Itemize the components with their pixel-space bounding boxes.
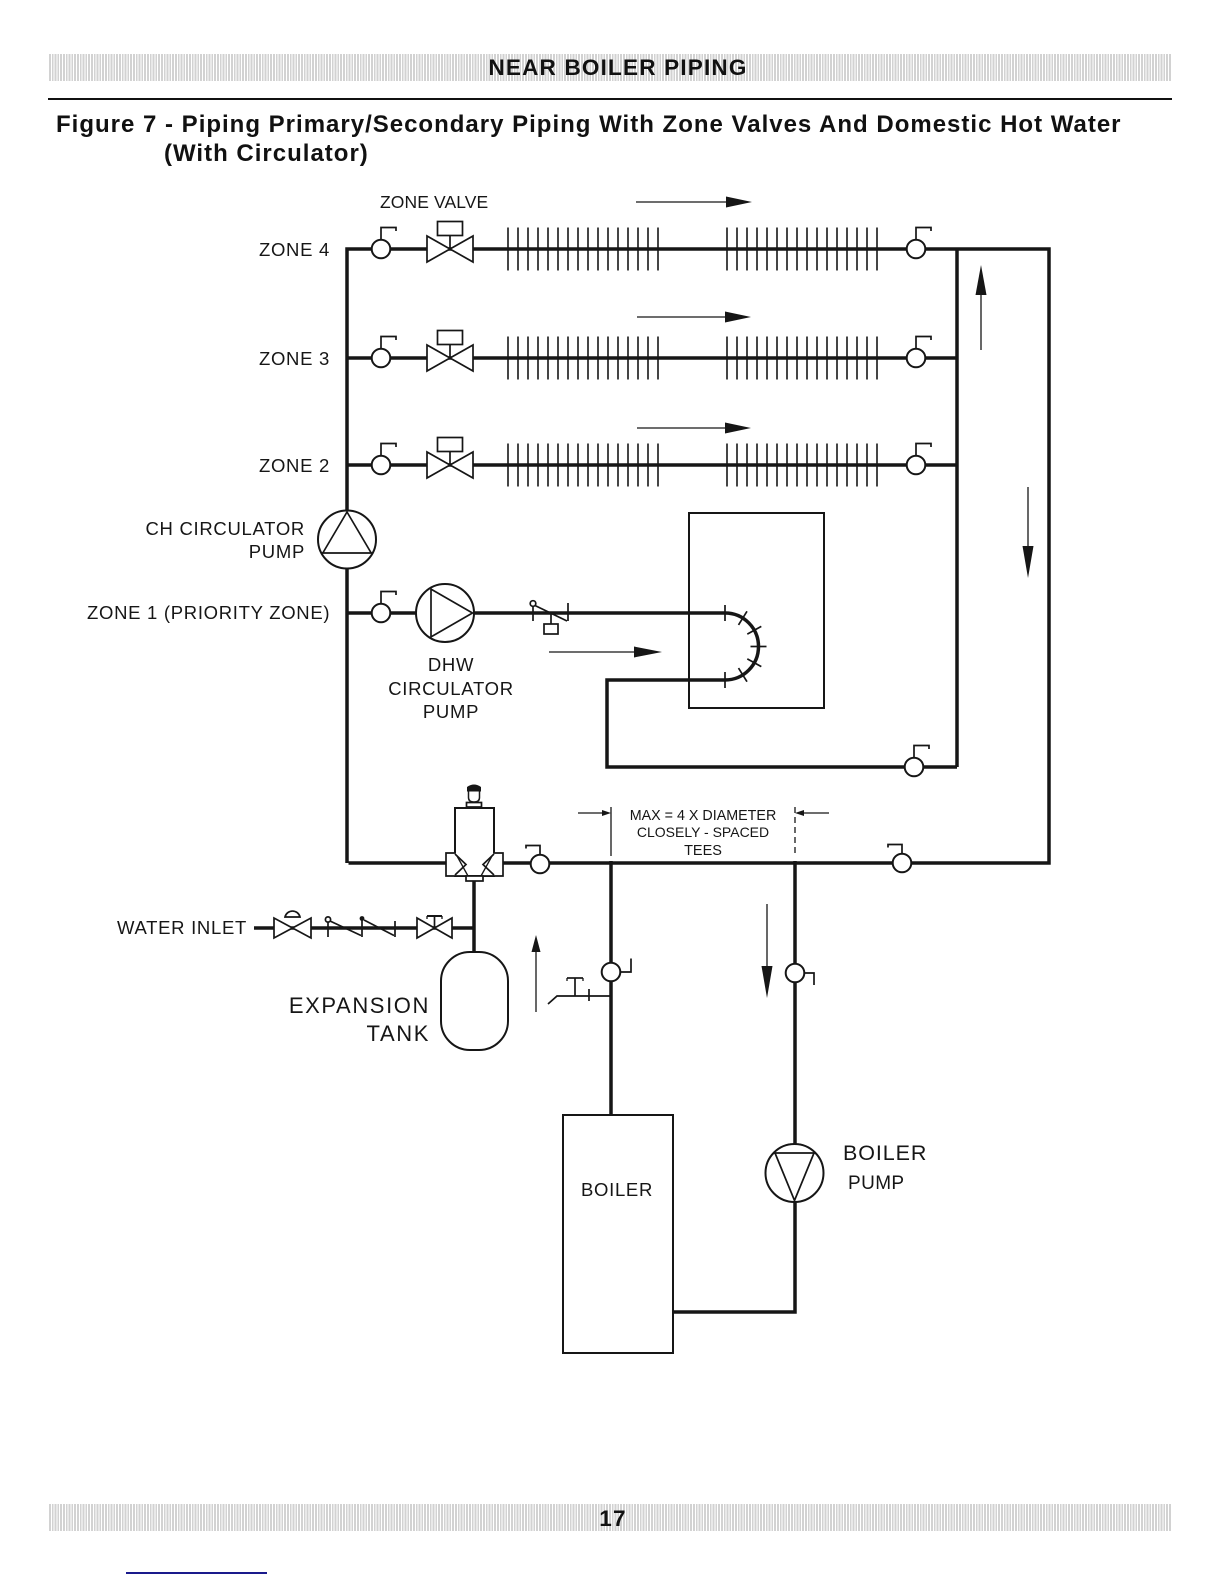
dimension arrow left (578, 810, 611, 816)
flow arrow down (boiler return) (762, 904, 773, 998)
svg-text:WATER INLET: WATER INLET (117, 917, 247, 938)
DHW circulator pump (416, 584, 474, 642)
flow arrow zone 1 / DHW (549, 647, 662, 658)
valve on boiler supply drop (602, 959, 631, 982)
flow arrow up (boiler supply) (532, 935, 541, 1012)
header title NEAR BOILER PIPING (56, 55, 1180, 81)
shutoff valve on water inlet (417, 916, 452, 938)
blue underline mark bottom left (126, 1572, 267, 1574)
drain valve, zone 1 return (905, 746, 929, 777)
svg-text:TEES: TEES (684, 843, 722, 859)
drain valve, zone 2 return (907, 444, 931, 475)
CH circulator pump (318, 511, 376, 569)
flow-check valve on zone 1 (530, 601, 568, 634)
wire: zone 2 pipe (348, 463, 957, 467)
boiler pump (766, 1144, 824, 1202)
DHW coil tick marks (725, 605, 767, 688)
wire: primary loop (left riser / zone-4 supply / outer return drop / bottom header) (347, 249, 1049, 863)
svg-text:CH CIRCULATOR: CH CIRCULATOR (145, 518, 305, 539)
wire: cold water inlet pipe (254, 926, 474, 930)
check valve 1 on water inlet (325, 917, 361, 937)
horizontal rule (48, 98, 1172, 100)
page number 17 (51, 1506, 1175, 1532)
svg-text:ZONE 1 (PRIORITY ZONE): ZONE 1 (PRIORITY ZONE) (87, 602, 330, 623)
drain valve, zone 4 supply (372, 228, 396, 259)
check valve 2 on water inlet (360, 916, 395, 937)
svg-text:PUMP: PUMP (423, 701, 479, 722)
dimension extension line, right tee (dashed) (794, 807, 796, 856)
wire: zone 1 supply pipe / DHW coil / coil return to inner riser (348, 613, 957, 767)
svg-text:TANK: TANK (367, 1021, 430, 1046)
drain valve, zone 1 supply (372, 592, 396, 623)
svg-text:CIRCULATOR: CIRCULATOR (388, 678, 514, 699)
expansion tank (441, 952, 508, 1050)
zone 3 baseboard radiation fins (508, 337, 877, 380)
svg-text:BOILER: BOILER (843, 1141, 927, 1165)
zone 2 baseboard radiation fins (508, 444, 877, 487)
svg-text:ZONE 2: ZONE 2 (259, 455, 330, 476)
figure caption line 2 (164, 140, 369, 168)
zone 4 baseboard radiation fins (508, 228, 877, 271)
air separator body (446, 808, 503, 881)
header hatched bar (48, 54, 1172, 81)
zone valve ZV4 (zone valve) (427, 222, 473, 263)
valve on boiler return drop (786, 964, 814, 985)
wire: inner return riser (955, 250, 959, 767)
svg-text:ZONE 4: ZONE 4 (259, 239, 330, 260)
dimension extension line, left tee (610, 807, 612, 856)
figure caption line 1 (56, 111, 1122, 139)
DHW tank (indirect water heater) (689, 513, 824, 708)
drain valve, header after air separator (526, 846, 549, 874)
svg-text:EXPANSION: EXPANSION (289, 993, 430, 1018)
svg-text:MAX = 4 X DIAMETER: MAX = 4 X DIAMETER (630, 808, 777, 824)
flow arrow down (outer return) (1023, 487, 1034, 578)
svg-text:DHW: DHW (428, 654, 474, 675)
drain valve, zone 3 supply (372, 337, 396, 368)
boiler (563, 1115, 673, 1353)
flow arrow zone 3 (637, 312, 751, 323)
pressure reducing valve on water inlet (274, 911, 311, 938)
dimension arrow right (795, 810, 829, 816)
wire: boiler return tee drop to boiler pump and boiler (673, 861, 795, 1312)
wire: air separator to expansion tank stem (472, 879, 476, 953)
svg-text:PUMP: PUMP (249, 541, 305, 562)
automatic air vent on air separator (467, 785, 482, 808)
footer hatched bar (48, 1504, 1172, 1531)
drain valve, header right (888, 845, 911, 873)
drain valve, zone 2 supply (372, 444, 396, 475)
zone valve ZV2 (zone valve) (427, 438, 473, 479)
flow arrow up (return riser) (976, 265, 987, 350)
wire: zone 3 pipe (348, 356, 957, 360)
svg-text:ZONE 3: ZONE 3 (259, 348, 330, 369)
drain valve, zone 4 return (907, 228, 931, 259)
flow arrow zone 2 (637, 423, 751, 434)
wire: boiler supply tee drop (609, 861, 613, 1116)
svg-text:ZONE VALVE: ZONE VALVE (380, 192, 488, 212)
drain valve, zone 3 return (907, 337, 931, 368)
flow arrow zone 4 (636, 197, 752, 208)
svg-text:BOILER: BOILER (581, 1179, 653, 1200)
zone valve ZV3 (zone valve) (427, 331, 473, 372)
svg-text:CLOSELY - SPACED: CLOSELY - SPACED (637, 824, 769, 840)
svg-text:PUMP: PUMP (848, 1173, 905, 1194)
purge/drain hose bib at boiler supply drop (548, 978, 611, 1004)
